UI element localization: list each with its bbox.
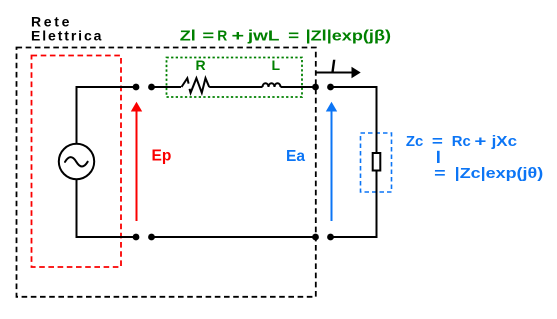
continuation bar <box>437 151 440 163</box>
svg-text:Elettrica: Elettrica <box>31 28 103 44</box>
svg-text:L: L <box>272 57 281 73</box>
wire: left port bottom to source bottom <box>77 179 137 237</box>
wire: bottom between ports <box>152 236 316 238</box>
svg-text:|Zl|exp(jβ): |Zl|exp(jβ) <box>306 27 391 44</box>
wire: resistor to inductor <box>209 86 262 88</box>
svg-text:jXc: jXc <box>490 133 517 150</box>
svg-text:jwL: jwL <box>247 27 280 44</box>
svg-text:=: = <box>202 27 214 44</box>
node: right port bottom <box>312 234 319 241</box>
node: line input bottom <box>148 234 155 241</box>
source boundary box (red) <box>32 56 122 268</box>
formula = |Zc|exp(jTheta) <box>434 165 543 182</box>
node: left port top (+) <box>133 84 140 91</box>
svg-text:Zl: Zl <box>180 27 196 44</box>
svg-text:+: + <box>232 27 245 44</box>
node: load input top <box>327 84 334 91</box>
inductor L <box>263 83 281 87</box>
svg-text:Ep: Ep <box>152 148 172 165</box>
label I <box>331 60 335 72</box>
current arrow I <box>316 72 352 74</box>
wire: load bottom down and left to right port bottom terminal <box>331 171 377 238</box>
svg-text:Zc: Zc <box>406 133 423 150</box>
formula Zl = R + jwL = |Zl|exp(jB) <box>180 27 391 44</box>
voltage arrow Ea <box>331 111 333 222</box>
svg-text:=: = <box>432 133 443 150</box>
svg-text:Rc: Rc <box>452 133 471 150</box>
svg-text:Ea: Ea <box>286 148 305 165</box>
svg-text:=: = <box>434 165 446 182</box>
node: load input bottom <box>327 234 334 241</box>
AC source <box>59 144 94 179</box>
svg-text:|Zc|exp(jθ): |Zc|exp(jθ) <box>455 165 544 182</box>
wire: inductor to right port top terminal <box>281 86 316 88</box>
load impedance Zc (rect symbol) <box>373 153 381 171</box>
resistor R <box>182 78 189 87</box>
node: right port top <box>312 84 319 91</box>
svg-text:+: + <box>474 133 486 150</box>
wire: left port top to resistor <box>152 86 182 88</box>
svg-text:R: R <box>196 57 206 73</box>
line impedance box (green) <box>167 58 303 98</box>
node: left port bottom <box>133 234 140 241</box>
wire: right port top to load, down right side <box>331 87 377 153</box>
voltage arrow Ep <box>136 111 138 222</box>
svg-text:R: R <box>217 27 227 44</box>
formula Zc = Rc + jXc <box>406 133 517 150</box>
svg-text:=: = <box>288 27 299 44</box>
load boundary box (blue) <box>361 133 392 192</box>
wire: source top to left port top terminal <box>77 87 137 144</box>
network boundary box (Rete Elettrica) <box>17 48 316 297</box>
node: line input top <box>148 84 155 91</box>
